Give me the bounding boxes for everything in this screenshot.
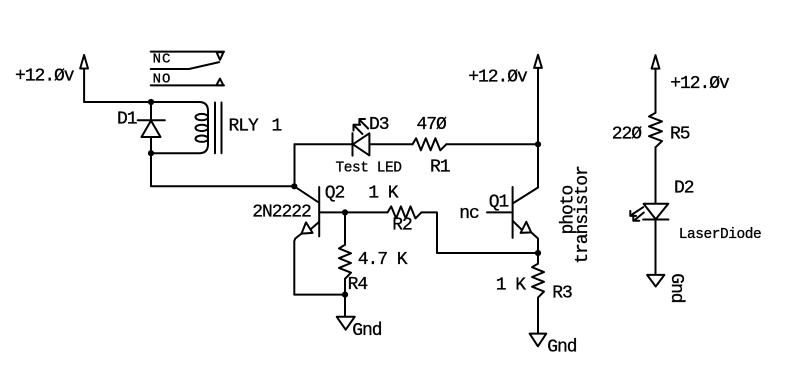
wire D3 to R1 — [369, 143, 412, 145]
transistor Q2 base wire — [319, 211, 345, 213]
resistor R3 — [532, 264, 544, 298]
laser diode D2 — [643, 204, 668, 220]
svg-text:+12.Øv: +12.Øv — [15, 67, 75, 87]
node B junction (relay coil bottom / D1 anode) — [148, 150, 154, 156]
ground (laser) — [647, 275, 664, 287]
svg-text:Gnd: Gnd — [666, 273, 686, 303]
node D junction (R1 / Q1 collector / +12) — [535, 141, 541, 147]
power +12.0v (center) — [534, 55, 542, 145]
svg-text:LaserDiode: LaserDiode — [679, 227, 762, 243]
svg-text:transistor: transistor — [573, 166, 593, 264]
node G junction (Q1 emitter / R2 / R3) — [535, 250, 541, 256]
wire Q1 emitter to R3 — [537, 253, 539, 264]
ground (Q2) — [337, 295, 355, 330]
wire R1 to +12 node — [446, 143, 538, 145]
svg-text:+12.Øv: +12.Øv — [670, 74, 730, 94]
svg-text:R4: R4 — [348, 275, 368, 295]
svg-text:D1: D1 — [117, 109, 137, 129]
svg-text:Gnd: Gnd — [352, 321, 382, 341]
resistor R5 — [649, 113, 662, 148]
wire D2 to ground — [655, 220, 657, 275]
node E junction (Q2 base / R2 / R4) — [342, 209, 348, 215]
svg-text:RLY: RLY — [229, 117, 260, 137]
transistor Q1 base bar — [512, 187, 514, 238]
svg-text:D2: D2 — [674, 179, 694, 199]
svg-text:R2: R2 — [392, 216, 412, 236]
resistor R4 — [339, 245, 351, 279]
svg-text:22Ø: 22Ø — [612, 124, 643, 144]
svg-text:1 K: 1 K — [496, 276, 527, 296]
relay RLY 1 coil — [151, 102, 208, 153]
svg-text:Gnd: Gnd — [547, 338, 577, 358]
wire node C up to Test LED — [294, 144, 296, 186]
power +12.0v supply (left) — [80, 55, 88, 102]
node C junction (Q2 collector) — [291, 183, 297, 189]
wire Q2 base to R4 — [344, 212, 346, 244]
svg-text:nc: nc — [459, 204, 479, 224]
relay contact NC line — [151, 51, 224, 53]
transistor Q2 emitter — [294, 222, 319, 295]
LED D3 emission arrows — [354, 119, 369, 134]
svg-text:2N2222: 2N2222 — [252, 203, 311, 223]
label RLY 1 — [229, 117, 282, 137]
node A junction (relay coil top / D1 cathode) — [148, 99, 154, 105]
laser D2 emission arrows — [630, 207, 644, 221]
svg-text:D3: D3 — [369, 115, 389, 135]
svg-text:R1: R1 — [430, 157, 450, 177]
power +12.0v (laser branch) — [652, 55, 660, 113]
wire Q2 emitter to ground node — [294, 294, 345, 296]
wire R2 to Q1 emitter node — [421, 212, 538, 253]
svg-text:1 K: 1 K — [368, 184, 399, 204]
ground (R3) — [530, 334, 547, 347]
relay contact NO line — [151, 84, 224, 86]
wire R5 to D2 — [655, 147, 657, 203]
transistor Q2 base bar — [318, 187, 320, 236]
transistor Q1 emitter — [513, 221, 538, 253]
node F junction (Q2 emitter / R4 / ground) — [342, 292, 348, 298]
relay contact NC terminal triangle — [217, 52, 224, 60]
svg-text:Test LED: Test LED — [336, 160, 402, 176]
relay contact NO terminal triangle — [217, 79, 224, 86]
wire R3 to ground — [537, 298, 539, 334]
svg-text:Q1: Q1 — [489, 193, 509, 213]
svg-text:4.7 K: 4.7 K — [358, 250, 408, 270]
wire to D3 — [295, 143, 353, 145]
resistor R2 — [388, 206, 422, 218]
wire +12v to relay node — [84, 101, 151, 103]
transistor Q1 base stub (nc) — [487, 211, 513, 213]
wire Q2 base to R2 — [345, 211, 388, 213]
svg-text:+12.Øv: +12.Øv — [468, 67, 528, 87]
svg-text:R3: R3 — [552, 284, 572, 304]
svg-text:NC: NC — [153, 51, 172, 67]
svg-text:47Ø: 47Ø — [417, 115, 448, 135]
wire R4 to emitter node — [344, 279, 346, 295]
relay core bars — [215, 103, 222, 154]
LED D3 — [353, 133, 370, 156]
relay switch arm — [151, 62, 220, 69]
wire relay bottom to Q2 collector node — [151, 153, 294, 186]
svg-text:1: 1 — [272, 117, 282, 137]
svg-text:R5: R5 — [670, 124, 690, 144]
svg-text:Q2: Q2 — [325, 184, 345, 204]
diode D1 — [138, 102, 165, 153]
resistor R1 — [413, 138, 447, 150]
transistor Q2 collector lead — [294, 186, 319, 203]
transistor Q1 collector lead — [513, 144, 538, 203]
